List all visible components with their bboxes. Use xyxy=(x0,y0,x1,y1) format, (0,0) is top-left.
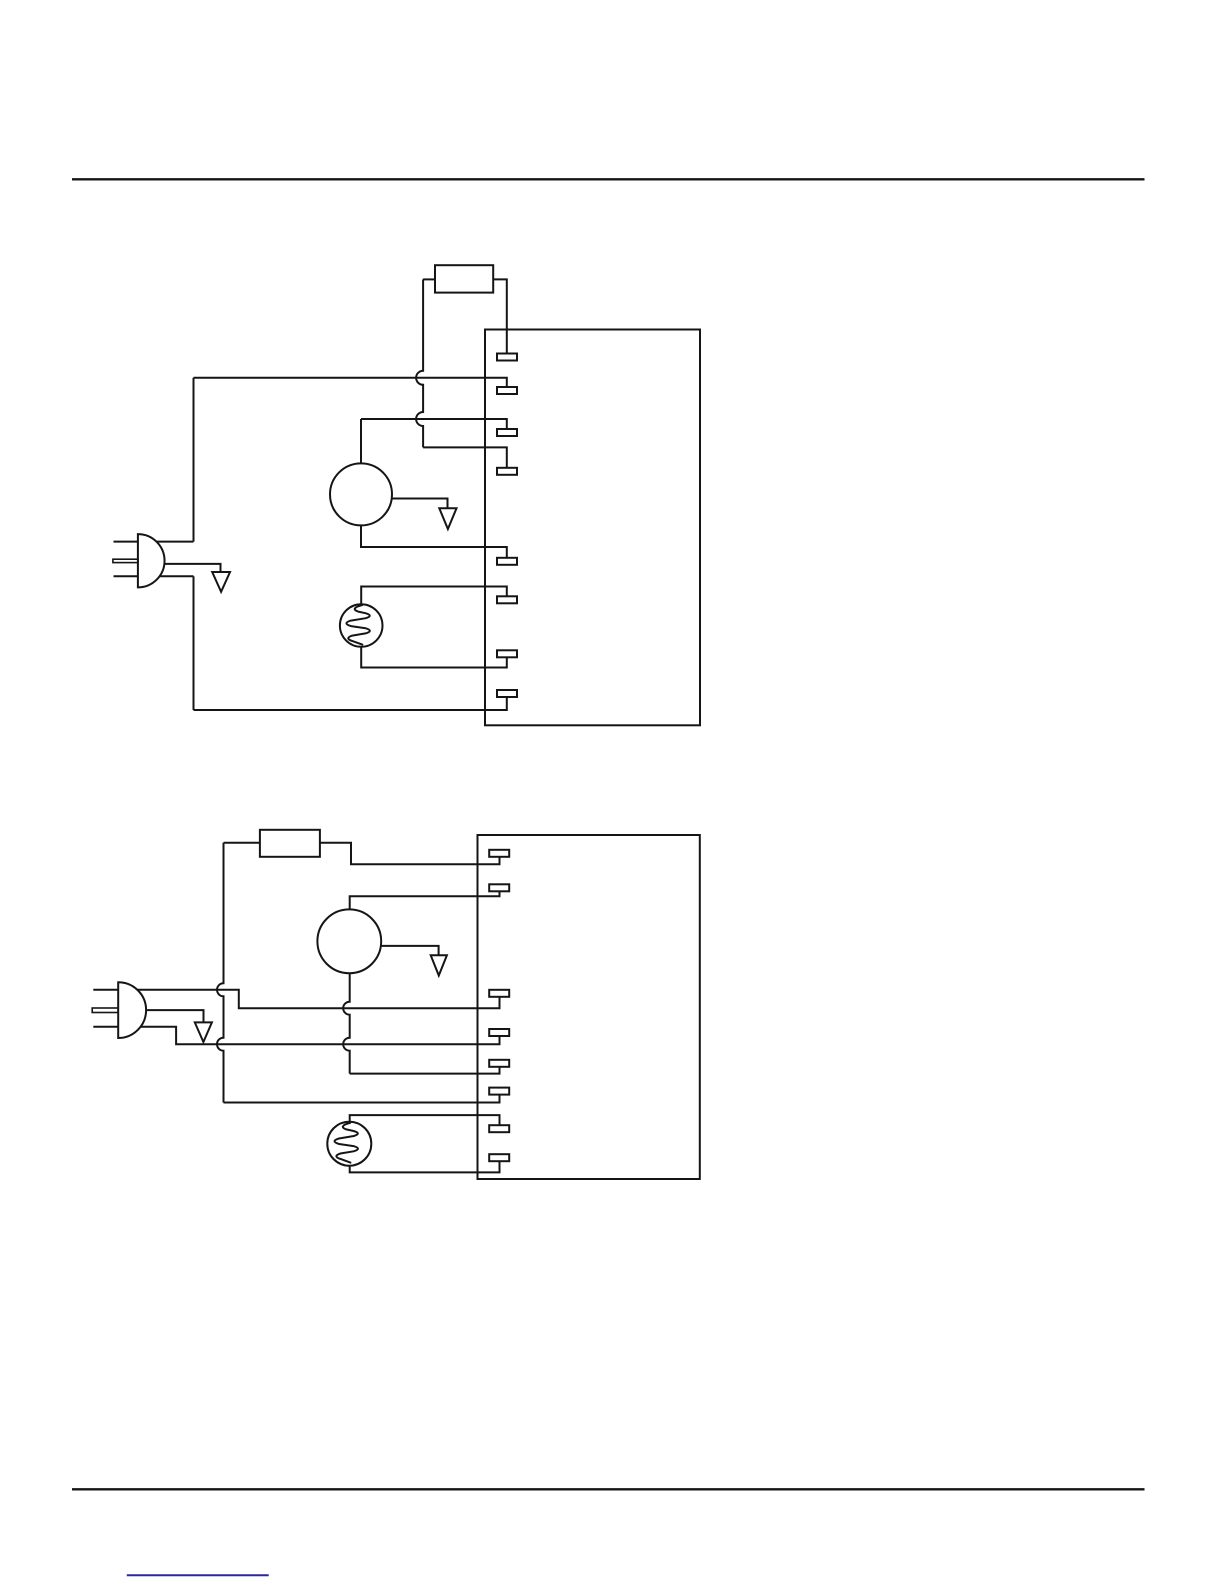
wire E1 bottom to terminal 7 (upper) xyxy=(361,647,507,668)
terminal 8 (upper) xyxy=(497,690,517,697)
wire to terminal 6 (lower) xyxy=(224,1095,500,1103)
ground (motor M1) xyxy=(439,508,456,529)
terminal 5 (lower) xyxy=(489,1060,509,1067)
terminal 7 (lower) xyxy=(489,1125,509,1132)
terminal 1 (lower) xyxy=(489,850,509,857)
plug P2 xyxy=(92,982,146,1038)
ground (plug P2) xyxy=(195,1022,212,1042)
terminal 2 (lower) xyxy=(489,884,509,891)
wire plug L1 vertical riser xyxy=(193,378,195,542)
terminal 5 (upper) xyxy=(497,558,517,565)
resistor R1 xyxy=(435,265,493,292)
wire plug P1 ground lead xyxy=(150,564,221,572)
wire R1 right lead to terminal 1 (upper) xyxy=(493,279,507,353)
timer box (upper) xyxy=(485,330,700,726)
wire M1 bottom to terminal 5 (upper) xyxy=(361,525,507,557)
wire motor M1 top lead xyxy=(360,419,362,463)
ground (plug P1) xyxy=(212,572,230,592)
wire plug neutral vertical drop xyxy=(193,576,195,710)
wire to terminal 5 (lower) xyxy=(350,1067,500,1074)
terminal 6 (lower) xyxy=(489,1088,509,1095)
terminal 6 (upper) xyxy=(497,596,517,603)
terminal 8 (lower) xyxy=(489,1154,509,1161)
heater E2 xyxy=(327,1122,371,1166)
wire R2 right lead to terminal 1 (lower) xyxy=(320,843,500,865)
heater E1 xyxy=(340,604,383,647)
wire plug P2 ground lead xyxy=(130,1010,204,1022)
terminal 4 (upper) xyxy=(497,468,517,475)
timer box (lower) xyxy=(478,835,700,1179)
terminal 4 (lower) xyxy=(489,1029,509,1036)
plug P1 xyxy=(113,534,165,587)
wire plug P1 line lead xyxy=(150,541,194,543)
wire plug P1 neutral lead xyxy=(150,575,194,577)
wire plug L1 to terminal 2 (upper) xyxy=(194,378,507,387)
wire E1 top to terminal 6 (upper) xyxy=(361,587,507,605)
wire to terminal 3 (upper) xyxy=(361,419,507,429)
wire R1 left lead xyxy=(423,278,435,280)
wire line vertical with hops (lower) xyxy=(217,843,223,1103)
wire plug P2 line to terminal 3 (lower) xyxy=(130,990,500,1008)
terminal 1 (upper) xyxy=(497,354,517,361)
wire to terminal 4 (upper) xyxy=(423,447,507,467)
motor M1 xyxy=(330,463,392,525)
resistor R2 xyxy=(260,830,320,857)
terminal 2 (upper) xyxy=(497,387,517,394)
wire motor M2 top to terminal 2 (lower) xyxy=(350,891,500,909)
terminal 3 (upper) xyxy=(497,429,517,436)
wire M1 to ground xyxy=(392,499,448,509)
wire E2 top to terminal 7 (lower) xyxy=(350,1115,500,1125)
wire R2 left lead xyxy=(224,842,260,844)
motor M2 xyxy=(317,909,381,973)
wire M2 bottom vertical with hops xyxy=(343,973,350,1073)
terminal 3 (lower) xyxy=(489,990,509,997)
wire R1 left vertical with hops over L1 and motor wires xyxy=(416,279,423,447)
wire M2 to ground xyxy=(381,946,438,955)
ground (motor M2) xyxy=(431,955,447,975)
wire neutral bottom to terminal 8 (upper) xyxy=(194,697,507,710)
wire plug P2 neutral to terminal 4 (lower) xyxy=(130,1027,500,1045)
wire E2 bottom to terminal 8 (lower) xyxy=(350,1161,500,1172)
terminal 7 (upper) xyxy=(497,650,517,657)
